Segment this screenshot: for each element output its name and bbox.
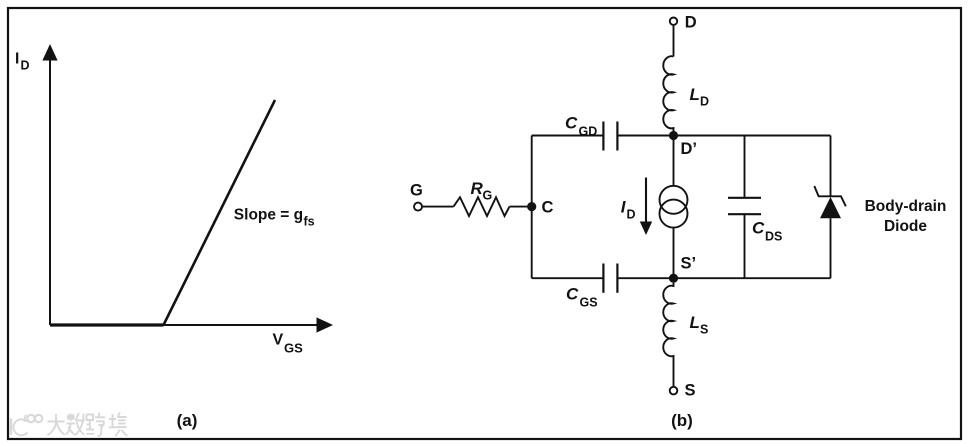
svg-text:(a): (a) xyxy=(177,411,198,430)
top wire left segment (C to CGD) xyxy=(532,135,604,137)
svg-text:D: D xyxy=(685,13,697,31)
watermark logo xyxy=(11,415,42,436)
svg-text:(b): (b) xyxy=(671,411,693,430)
svg-text:Body-drain: Body-drain xyxy=(865,198,947,215)
current arrow ID xyxy=(640,178,652,236)
current source ID xyxy=(660,186,688,228)
x-axis V_GS (graph a) xyxy=(50,317,333,332)
right branch lower wire (diode anode to bottom) xyxy=(830,218,832,278)
svg-text:C: C xyxy=(566,285,579,304)
bottom wire right segment (CGS to diode branch) xyxy=(617,277,830,279)
svg-text:GD: GD xyxy=(579,125,598,139)
svg-text:S: S xyxy=(700,323,708,337)
label LD xyxy=(690,85,710,109)
svg-text:C: C xyxy=(565,114,578,133)
inductor LD xyxy=(663,56,673,135)
node D' junction dot xyxy=(669,131,678,140)
node C junction dot xyxy=(527,202,536,211)
top wire right segment (CGD to diode branch) xyxy=(617,135,830,137)
bottom wire left segment (C to CGS) xyxy=(532,277,604,279)
right branch upper wire (to diode cathode) xyxy=(830,136,832,197)
inductor LS xyxy=(663,283,673,387)
terminal D xyxy=(670,18,677,25)
wire RG to node C xyxy=(510,206,532,208)
svg-text:C: C xyxy=(542,198,554,216)
svg-text:G: G xyxy=(483,189,493,203)
svg-text:S: S xyxy=(685,381,696,399)
svg-text:D: D xyxy=(700,95,709,109)
wire G to RG xyxy=(422,206,453,208)
svg-text:L: L xyxy=(690,313,700,332)
terminal G xyxy=(414,203,422,211)
svg-text:L: L xyxy=(690,85,700,104)
x-axis label V_GS xyxy=(273,332,304,356)
slope annotation Slope = gfs xyxy=(234,206,315,228)
label CDS xyxy=(752,219,782,244)
svg-text:S’: S’ xyxy=(681,255,697,273)
transfer curve flat segment xyxy=(50,323,164,326)
label RG xyxy=(471,179,493,203)
transfer curve rising segment xyxy=(164,100,276,325)
svg-text:D: D xyxy=(627,208,636,222)
left vertical wire (node C branch) xyxy=(531,136,533,279)
capacitor CDS branch upper wire xyxy=(744,136,746,198)
resistor RG xyxy=(454,197,510,216)
node S' junction dot xyxy=(669,274,678,283)
capacitor CGD xyxy=(603,122,617,151)
y-axis label I_D xyxy=(15,51,30,73)
svg-text:V: V xyxy=(273,332,284,349)
label LS xyxy=(690,313,709,337)
svg-text:D’: D’ xyxy=(681,140,698,158)
svg-text:I: I xyxy=(15,51,19,68)
svg-text:GS: GS xyxy=(580,296,598,310)
label ID xyxy=(621,198,636,222)
terminal S xyxy=(670,387,678,395)
svg-text:C: C xyxy=(752,219,765,238)
svg-text:GS: GS xyxy=(284,340,303,355)
capacitor CDS xyxy=(728,198,761,214)
svg-text:G: G xyxy=(410,181,423,199)
y-axis I_D (graph a) xyxy=(42,44,57,325)
capacitor CDS branch lower wire xyxy=(744,214,746,278)
body-drain diode xyxy=(814,186,846,218)
label CGD xyxy=(565,114,597,139)
svg-text:fs: fs xyxy=(304,215,315,229)
svg-text:Diode: Diode xyxy=(884,218,927,235)
svg-text:DS: DS xyxy=(765,230,782,244)
capacitor CGS xyxy=(603,264,617,293)
watermark text xyxy=(48,413,128,437)
label CGS xyxy=(566,285,598,310)
wire D to LD xyxy=(673,25,675,56)
wire D' to current source xyxy=(673,136,675,187)
wire current source to S' xyxy=(673,228,675,279)
svg-text:Slope = g: Slope = g xyxy=(234,206,303,223)
label Body-drain Diode xyxy=(865,198,947,235)
svg-text:D: D xyxy=(21,59,30,73)
